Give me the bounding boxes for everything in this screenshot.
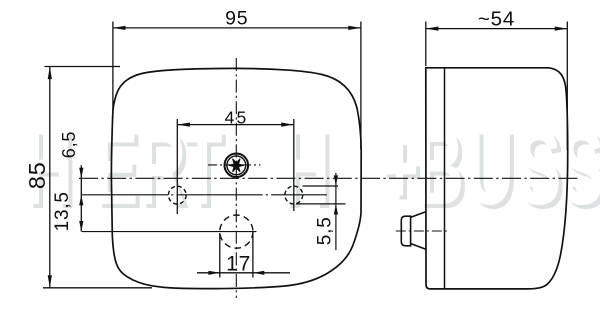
watermark HERTH+BUSS xyxy=(25,107,600,231)
holes centerline horizontal xyxy=(82,194,327,196)
screw cross recess star xyxy=(229,159,244,172)
13,5 extension line / 17-hole center line xyxy=(82,231,257,233)
horizontal main centerline across both views xyxy=(79,177,581,179)
screw inner circle xyxy=(227,156,246,175)
svg-text:U: U xyxy=(466,107,514,227)
svg-text:95: 95 xyxy=(225,8,248,30)
dimension ~54 xyxy=(426,22,568,151)
svg-text:E: E xyxy=(94,107,138,227)
svg-text:13,5: 13,5 xyxy=(52,191,73,231)
dimensions 6,5 and 13,5 (left stacked) xyxy=(80,165,82,231)
cable socket centerline xyxy=(396,230,450,232)
svg-text:~54: ~54 xyxy=(478,8,515,31)
svg-text:85: 85 xyxy=(24,161,50,189)
side view lens separation line xyxy=(444,68,446,289)
dimension 5,5 (right hole diameter) xyxy=(296,173,346,250)
dimension 17 xyxy=(197,233,290,278)
cable socket flange xyxy=(401,216,410,246)
svg-text:S: S xyxy=(517,107,561,227)
side view body outline xyxy=(426,68,568,289)
screw centerline horizontal xyxy=(208,164,261,166)
screw U-head outer circle xyxy=(225,154,249,178)
dimension 45 xyxy=(177,119,293,214)
left mounting hole (hidden, dashed) xyxy=(168,186,186,204)
svg-text:5,5: 5,5 xyxy=(315,216,336,245)
cable socket taper top xyxy=(411,212,426,218)
right mounting hole (hidden, dashed) xyxy=(285,186,303,204)
front view body outline xyxy=(111,68,361,288)
svg-text:45: 45 xyxy=(225,107,249,127)
svg-text:B: B xyxy=(416,107,464,227)
svg-text:+: + xyxy=(380,107,419,227)
svg-text:6,5: 6,5 xyxy=(59,131,79,158)
vertical centerline of front view xyxy=(235,58,237,298)
dimension 95 xyxy=(113,22,361,151)
bottom 17mm hole (hidden, dashed) xyxy=(220,215,253,248)
svg-text:17: 17 xyxy=(226,252,251,275)
cable socket taper bottom xyxy=(411,244,426,250)
dimension 85 xyxy=(43,67,152,288)
